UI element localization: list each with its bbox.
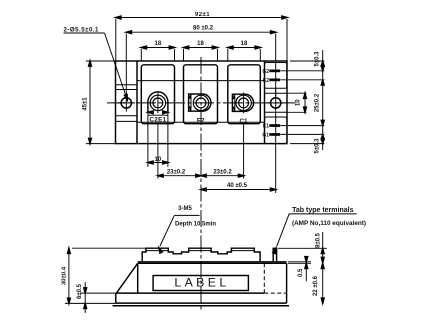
- left end boss lines: [116, 84, 138, 86]
- dim 40 line: [201, 189, 276, 191]
- LABEL box: [153, 276, 248, 291]
- svg-text:10: 10: [296, 99, 302, 106]
- lug2 bend arrows: [189, 94, 192, 99]
- tab E1: [269, 124, 280, 127]
- leader tab type: [289, 213, 357, 215]
- svg-text:3-M5: 3-M5: [178, 206, 192, 212]
- upper tab container: [265, 63, 287, 89]
- svg-text:23±0.2: 23±0.2: [213, 170, 232, 176]
- leader 2-phi5.5: [64, 32, 105, 34]
- svg-text:5±0.3: 5±0.3: [315, 51, 321, 67]
- svg-text:C2E1: C2E1: [150, 117, 167, 124]
- svg-text:E1: E1: [263, 124, 269, 130]
- main horizontal centerline: [107, 102, 296, 104]
- leader 3-M5: [174, 214, 199, 216]
- mounting hole left: [121, 98, 131, 108]
- svg-text:30±0.4: 30±0.4: [62, 266, 68, 285]
- dim 92 extension lines: [115, 19, 117, 61]
- dim 18 block2: [183, 49, 185, 61]
- dim 92 line: [116, 17, 287, 19]
- left end separator line: [136, 61, 138, 144]
- svg-text:Tab type terminals: Tab type terminals: [292, 207, 353, 214]
- hidden dashed lines right end: [263, 263, 265, 293]
- dim 0.5 ext lines: [288, 261, 311, 263]
- right end separator line: [264, 61, 266, 144]
- svg-text:18: 18: [241, 41, 248, 47]
- dim 10 bottom line: [148, 162, 168, 164]
- svg-text:(AMP No,110 equivalent): (AMP No,110 equivalent): [292, 220, 366, 227]
- right dims ext top/bottom: [290, 60, 324, 62]
- dim 23 ext lines: [157, 124, 159, 179]
- left slope: [117, 263, 138, 293]
- dim 40 ext line: [275, 112, 277, 193]
- svg-text:45±1: 45±1: [82, 97, 88, 111]
- right dim vertical line: [322, 50, 324, 150]
- svg-text:0.5: 0.5: [298, 268, 304, 277]
- right dim vertical line side view: [322, 232, 324, 304]
- center band line upper: [137, 80, 265, 82]
- dim 6 line: [84, 282, 86, 313]
- svg-text:40 ±0.5: 40 ±0.5: [227, 183, 248, 189]
- lower tab container: [265, 117, 287, 144]
- svg-text:22 ±0.6: 22 ±0.6: [313, 275, 319, 296]
- dim 23 line: [158, 175, 244, 177]
- bump inner lines: [146, 250, 168, 252]
- label box C2E1 top line: [148, 114, 168, 116]
- dim 18 block3: [227, 49, 229, 61]
- tab E2: [269, 79, 280, 82]
- svg-text:25±0.2: 25±0.2: [315, 93, 321, 112]
- dim 45 line: [89, 61, 91, 144]
- center band line lower: [137, 121, 265, 123]
- terminal block 3: [228, 65, 260, 124]
- dim 80 extension lines: [125, 34, 127, 97]
- dim 30 ext line: [72, 247, 146, 249]
- svg-text:18: 18: [155, 41, 162, 47]
- svg-text:C1: C1: [239, 118, 248, 125]
- dim 22 arrows: [321, 263, 324, 268]
- svg-text:6±0.5: 6±0.5: [77, 283, 83, 299]
- svg-text:23±0.2: 23±0.2: [167, 170, 186, 176]
- tab G2: [269, 70, 280, 73]
- terminal hole 2: [193, 95, 208, 110]
- terminal block 1: [141, 65, 174, 124]
- dim 18 block1: [140, 49, 142, 61]
- dim 10 bottom ext lines: [147, 112, 149, 167]
- svg-text:LABEL: LABEL: [174, 276, 229, 290]
- dim 8 ext line: [278, 247, 327, 249]
- vertical chain centerline: [200, 57, 202, 310]
- case top lines: [138, 261, 287, 263]
- tab extension lines: [280, 70, 324, 72]
- terminal platform profile: [142, 248, 260, 262]
- dim 6 ext line: [80, 292, 116, 294]
- lug arch terminal 1: [148, 92, 168, 113]
- svg-text:92±1: 92±1: [195, 12, 210, 18]
- dim 80 line: [126, 31, 275, 33]
- svg-text:E2: E2: [197, 117, 205, 124]
- side tab terminal: [273, 248, 276, 263]
- terminal block 2: [184, 65, 218, 124]
- svg-text:G1: G1: [262, 132, 269, 138]
- left end cap vertical: [137, 263, 139, 293]
- svg-text:Depth 10.5min: Depth 10.5min: [175, 222, 216, 228]
- dim 10 right: [287, 92, 307, 94]
- svg-text:80 ±0.2: 80 ±0.2: [193, 26, 214, 32]
- lug3 bend arrows: [233, 94, 236, 99]
- svg-text:5±0.3: 5±0.3: [315, 138, 321, 154]
- mounting hole right: [271, 98, 281, 108]
- lug terminal 2: [189, 94, 211, 111]
- dim 45 extension lines: [86, 60, 116, 62]
- dim 30 line: [68, 248, 70, 303]
- svg-text:E2: E2: [263, 78, 269, 84]
- svg-text:18: 18: [197, 41, 204, 47]
- module outline top view: [116, 61, 288, 144]
- tab G1: [269, 133, 280, 136]
- dim 0.5 line: [305, 257, 307, 282]
- lug terminal 3: [232, 94, 253, 111]
- svg-text:2-Ø5.5±0.1: 2-Ø5.5±0.1: [64, 27, 100, 34]
- right end strip lines: [265, 92, 288, 94]
- svg-text:8±0.5: 8±0.5: [316, 232, 322, 248]
- lug1 width arrows: [148, 111, 153, 114]
- terminal hole 1: [150, 95, 165, 110]
- svg-text:G2: G2: [262, 69, 269, 75]
- baseplate: [116, 292, 264, 294]
- terminal hole 3: [236, 95, 251, 110]
- svg-text:10: 10: [155, 157, 162, 163]
